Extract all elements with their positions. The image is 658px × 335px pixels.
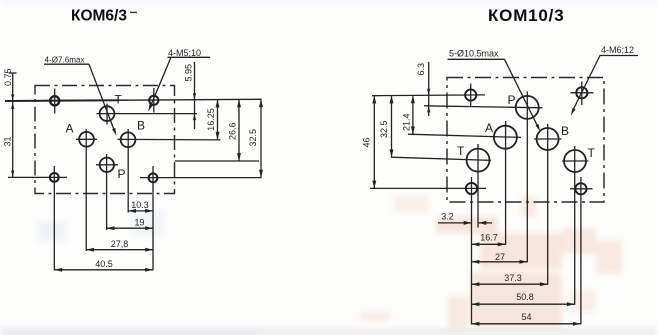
svg-text:50.8: 50.8 bbox=[516, 292, 534, 302]
svg-text:5.95: 5.95 bbox=[184, 64, 194, 82]
A centerline bbox=[408, 134, 521, 137]
svg-text:3.2: 3.2 bbox=[441, 212, 454, 222]
svg-text:19: 19 bbox=[134, 218, 144, 228]
dim 32.5 right fig bbox=[379, 96, 392, 158]
dim 32.5 bbox=[248, 99, 261, 177]
svg-text:P: P bbox=[508, 93, 516, 107]
T centerline bbox=[97, 113, 198, 115]
svg-text:54: 54 bbox=[521, 312, 531, 322]
dim 27,8 bbox=[86, 239, 153, 250]
svg-text:0.75: 0.75 bbox=[3, 68, 13, 86]
svg-text:6.3: 6.3 bbox=[416, 63, 426, 76]
T centerline bbox=[391, 157, 491, 160]
port hole T (left) bbox=[467, 144, 490, 228]
mounting hole top-left (4-M5) bbox=[50, 89, 59, 114]
svg-text:T: T bbox=[115, 93, 123, 107]
svg-text:27: 27 bbox=[495, 252, 505, 262]
svg-text:T: T bbox=[588, 146, 596, 160]
mounting hole top-left (4-M6) bbox=[465, 84, 476, 108]
svg-text:4-Ø7.6max: 4-Ø7.6max bbox=[45, 56, 85, 65]
port hole B bbox=[534, 124, 562, 285]
leader 4-O7.6max bbox=[44, 56, 116, 136]
svg-text:27,8: 27,8 bbox=[111, 239, 129, 249]
dim 5.95 (right side) bbox=[184, 62, 197, 129]
dim 26.6 bbox=[228, 100, 240, 162]
mounting hole bottom-left bbox=[50, 166, 59, 271]
P centerline extension bbox=[175, 160, 259, 162]
svg-text:37.3: 37.3 bbox=[504, 273, 522, 283]
dim 19 bbox=[107, 218, 153, 229]
top mounting-hole centerline bbox=[372, 94, 485, 97]
dim 54 bbox=[472, 312, 581, 324]
svg-text:КОМ6/3: КОМ6/3 bbox=[71, 8, 127, 25]
svg-text:4-M6;12: 4-M6;12 bbox=[601, 45, 634, 55]
port hole A bbox=[76, 129, 97, 251]
dim 21.4 bbox=[402, 95, 413, 134]
dim 46 bbox=[362, 96, 375, 189]
svg-text:16.25: 16.25 bbox=[206, 108, 216, 131]
top mounting-hole centerline bbox=[5, 99, 262, 101]
plate outline (dashed) bbox=[447, 78, 604, 203]
svg-text:46: 46 bbox=[362, 137, 372, 147]
mounting hole bottom-right bbox=[570, 177, 593, 325]
mounting hole top-right (4-M5) bbox=[149, 88, 158, 113]
svg-text:5-Ø10.5max: 5-Ø10.5max bbox=[449, 49, 499, 59]
dim 40.5 bbox=[54, 259, 153, 270]
svg-text:40.5: 40.5 bbox=[95, 259, 113, 269]
svg-text:16.7: 16.7 bbox=[480, 233, 498, 243]
dim 16.7 bbox=[472, 233, 506, 245]
leader 5-O10.5max bbox=[448, 49, 541, 132]
svg-text:4-M5;10: 4-M5;10 bbox=[168, 48, 201, 58]
mounting hole bottom-left bbox=[466, 177, 477, 325]
dim 37.3 bbox=[472, 273, 548, 284]
svg-text:A: A bbox=[485, 121, 493, 135]
dim 0.75 / 31 (left side) bbox=[3, 68, 17, 177]
svg-text:A: A bbox=[66, 122, 74, 136]
dim 6.3 bbox=[416, 62, 430, 116]
dim 27 bbox=[472, 252, 528, 262]
B centerline bbox=[118, 138, 221, 141]
port hole P bbox=[516, 92, 539, 263]
dim 50.8 bbox=[472, 292, 575, 304]
port hole T (right) bbox=[562, 146, 589, 305]
leader 4-M6;12 bbox=[571, 45, 638, 115]
dim 16.25 bbox=[206, 100, 218, 140]
port hole B bbox=[121, 129, 136, 213]
dim 3.2 (bottom) bbox=[438, 212, 492, 223]
svg-text:P: P bbox=[118, 167, 126, 181]
leader 4-M5;10 bbox=[148, 48, 210, 112]
bottom mounting-hole centerline bbox=[370, 187, 486, 189]
mounting hole bottom-right bbox=[149, 166, 158, 271]
svg-text:T: T bbox=[457, 144, 465, 158]
P centerline bbox=[424, 106, 543, 108]
bottom mounting-hole centerline bbox=[8, 176, 262, 178]
svg-text:32.5: 32.5 bbox=[379, 120, 389, 138]
svg-text:10.3: 10.3 bbox=[131, 200, 149, 210]
svg-text:B: B bbox=[561, 124, 569, 138]
mounting hole top-right (4-M6) bbox=[571, 82, 594, 106]
svg-text:КОМ10/3: КОМ10/3 bbox=[488, 6, 564, 25]
port hole P bbox=[96, 154, 118, 230]
svg-text:32.5: 32.5 bbox=[248, 129, 258, 147]
svg-text:26.6: 26.6 bbox=[228, 122, 238, 140]
plate outline (dashed) bbox=[35, 86, 175, 194]
svg-text:B: B bbox=[137, 119, 145, 133]
dim 10.3 (bottom) bbox=[128, 200, 153, 211]
port hole T bbox=[100, 104, 115, 125]
svg-text:31: 31 bbox=[3, 136, 13, 146]
svg-text:21.4: 21.4 bbox=[402, 113, 412, 131]
title KOM6/3 bbox=[71, 8, 137, 25]
port hole A bbox=[494, 121, 517, 245]
